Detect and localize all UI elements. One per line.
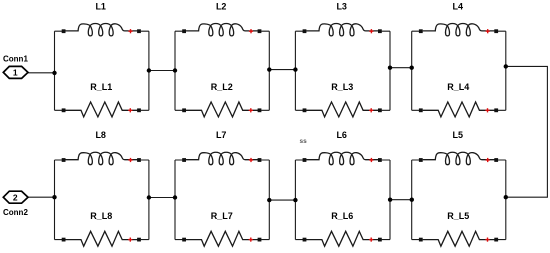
polarity marker R_L4 (485, 108, 489, 112)
polarity marker R_L5 (485, 238, 489, 242)
wire net top segment 1 (149, 70, 175, 72)
wire R_L7 branch stubs (175, 239, 269, 241)
polarity marker L2 (249, 29, 253, 33)
junction (293, 67, 297, 71)
junction (52, 71, 56, 75)
wire net top segment 2 (269, 69, 295, 71)
wire net bottom segment 1 (149, 197, 175, 199)
wire cell L1 left vertical (54, 31, 56, 110)
svg-text:L4: L4 (453, 1, 464, 11)
resistor R_L6 (306, 231, 378, 246)
port L8 pin1 (62, 158, 66, 162)
wire L4 branch stubs (412, 30, 506, 32)
port L2 pin1 (182, 29, 186, 33)
svg-text:Conn1: Conn1 (3, 54, 28, 63)
wire L3 branch stubs (295, 30, 390, 32)
port L4 pin2 (494, 29, 498, 33)
junction (293, 198, 297, 202)
port R_L7 pin2 (258, 238, 262, 242)
port L3 pin1 (303, 29, 307, 33)
resistor R_L5 (423, 231, 495, 246)
wire cell L3 left vertical (294, 31, 296, 110)
wire L8 branch stubs (55, 159, 149, 161)
wire cell L8 right vertical (148, 160, 150, 240)
junction (410, 66, 414, 70)
port R_L4 pin1 (419, 108, 423, 112)
inductor L7 (186, 152, 258, 164)
junction (52, 195, 56, 199)
port R_L6 pin1 (303, 238, 307, 242)
inductor L8 (66, 152, 138, 164)
svg-text:2: 2 (13, 192, 18, 202)
svg-text:ss: ss (300, 138, 308, 145)
svg-text:R_L4: R_L4 (447, 82, 469, 92)
connector Conn1 (3, 66, 28, 78)
svg-text:R_L8: R_L8 (90, 211, 112, 221)
port L4 pin1 (419, 29, 423, 33)
inductor L1 (66, 23, 138, 35)
inductor L6 (306, 152, 378, 164)
wire far-right connecting top and bottom rows (506, 66, 548, 197)
polarity marker R_L3 (369, 108, 373, 112)
wire R_L6 branch stubs (295, 239, 390, 241)
polarity marker R_L7 (249, 238, 253, 242)
wire cell L6 left vertical (294, 160, 296, 240)
port R_L3 pin2 (378, 108, 382, 112)
svg-text:1: 1 (13, 68, 18, 78)
wire cell L4 right vertical (505, 31, 507, 110)
port R_L8 pin1 (62, 238, 66, 242)
port R_L5 pin2 (494, 238, 498, 242)
port L5 pin1 (419, 158, 423, 162)
svg-text:R_L2: R_L2 (211, 82, 233, 92)
wire cell L4 left vertical (411, 31, 413, 110)
polarity marker L8 (128, 158, 132, 162)
port R_L1 pin1 (62, 108, 66, 112)
port L6 pin1 (303, 158, 307, 162)
wire cell L3 right vertical (389, 31, 391, 110)
wire L5 branch stubs (412, 159, 506, 161)
svg-text:L5: L5 (453, 130, 464, 140)
inductor L2 (186, 23, 258, 35)
junction (173, 195, 177, 199)
polarity marker R_L8 (128, 238, 132, 242)
port L2 pin2 (258, 29, 262, 33)
polarity marker L6 (369, 158, 373, 162)
resistor R_L1 (66, 102, 138, 117)
port R_L4 pin2 (494, 108, 498, 112)
wire net top segment 0 (28, 72, 55, 74)
svg-text:R_L6: R_L6 (331, 211, 353, 221)
wire R_L5 branch stubs (412, 239, 506, 241)
port R_L3 pin1 (303, 108, 307, 112)
polarity marker L5 (486, 158, 490, 162)
junction (410, 198, 414, 202)
wire R_L2 branch stubs (175, 109, 269, 111)
wire L7 branch stubs (175, 159, 269, 161)
port L1 pin2 (137, 29, 141, 33)
wire net top segment 3 (390, 67, 412, 69)
port R_L6 pin2 (378, 238, 382, 242)
wire cell L2 left vertical (174, 31, 176, 110)
junction (388, 198, 392, 202)
svg-text:R_L5: R_L5 (447, 211, 469, 221)
junction (388, 66, 392, 70)
inductor L3 (306, 23, 378, 35)
wire cell L8 left vertical (54, 160, 56, 240)
wire cell L1 right vertical (148, 31, 150, 110)
connector Conn2 (3, 191, 28, 203)
svg-text:R_L3: R_L3 (331, 82, 353, 92)
port R_L7 pin1 (182, 238, 186, 242)
port L1 pin1 (62, 29, 66, 33)
polarity marker L1 (128, 29, 132, 33)
wire cell L2 right vertical (268, 31, 270, 110)
port R_L8 pin2 (137, 238, 141, 242)
wire L2 branch stubs (175, 30, 269, 32)
wire net bottom segment 0 (28, 196, 55, 198)
svg-text:L2: L2 (216, 1, 227, 11)
polarity marker R_L6 (369, 238, 373, 242)
svg-text:L8: L8 (95, 130, 106, 140)
resistor R_L7 (186, 231, 258, 246)
resistor R_L4 (423, 102, 495, 117)
resistor R_L2 (186, 102, 258, 117)
port R_L1 pin2 (137, 108, 141, 112)
wire cell L5 left vertical (411, 160, 413, 240)
svg-text:L3: L3 (336, 1, 347, 11)
port L8 pin2 (137, 158, 141, 162)
wire L1 branch stubs (55, 30, 149, 32)
wire net bottom segment 2 (269, 199, 295, 201)
svg-text:Conn2: Conn2 (3, 208, 28, 217)
svg-text:L6: L6 (336, 130, 347, 140)
inductor L5 (423, 152, 495, 164)
wire R_L1 branch stubs (55, 109, 149, 111)
wire cell L5 right vertical (505, 160, 507, 240)
svg-text:L1: L1 (95, 1, 106, 11)
junction (173, 68, 177, 72)
polarity marker R_L1 (128, 108, 132, 112)
port L6 pin2 (378, 158, 382, 162)
polarity marker L7 (249, 158, 253, 162)
svg-text:R_L7: R_L7 (211, 211, 233, 221)
inductor L4 (423, 23, 495, 35)
junction (147, 68, 151, 72)
port L3 pin2 (378, 29, 382, 33)
junction (267, 67, 271, 71)
junction (504, 195, 508, 199)
svg-text:L7: L7 (216, 130, 227, 140)
resistor R_L3 (306, 102, 378, 117)
polarity marker R_L2 (249, 108, 253, 112)
svg-text:R_L1: R_L1 (90, 82, 112, 92)
wire L6 branch stubs (295, 159, 390, 161)
wire cell L6 right vertical (389, 160, 391, 240)
wire cell L7 right vertical (268, 160, 270, 240)
port L7 pin1 (182, 158, 186, 162)
port L7 pin2 (258, 158, 262, 162)
port R_L2 pin2 (258, 108, 262, 112)
polarity marker L4 (486, 29, 490, 33)
wire cell L7 left vertical (174, 160, 176, 240)
wire R_L3 branch stubs (295, 109, 390, 111)
port R_L5 pin1 (419, 238, 423, 242)
resistor R_L8 (66, 231, 138, 246)
polarity marker L3 (369, 29, 373, 33)
junction (504, 64, 508, 68)
wire R_L4 branch stubs (412, 109, 506, 111)
junction (147, 195, 151, 199)
port L5 pin2 (494, 158, 498, 162)
junction (267, 198, 271, 202)
wire net bottom segment 3 (390, 199, 412, 201)
port R_L2 pin1 (182, 108, 186, 112)
wire R_L8 branch stubs (55, 239, 149, 241)
